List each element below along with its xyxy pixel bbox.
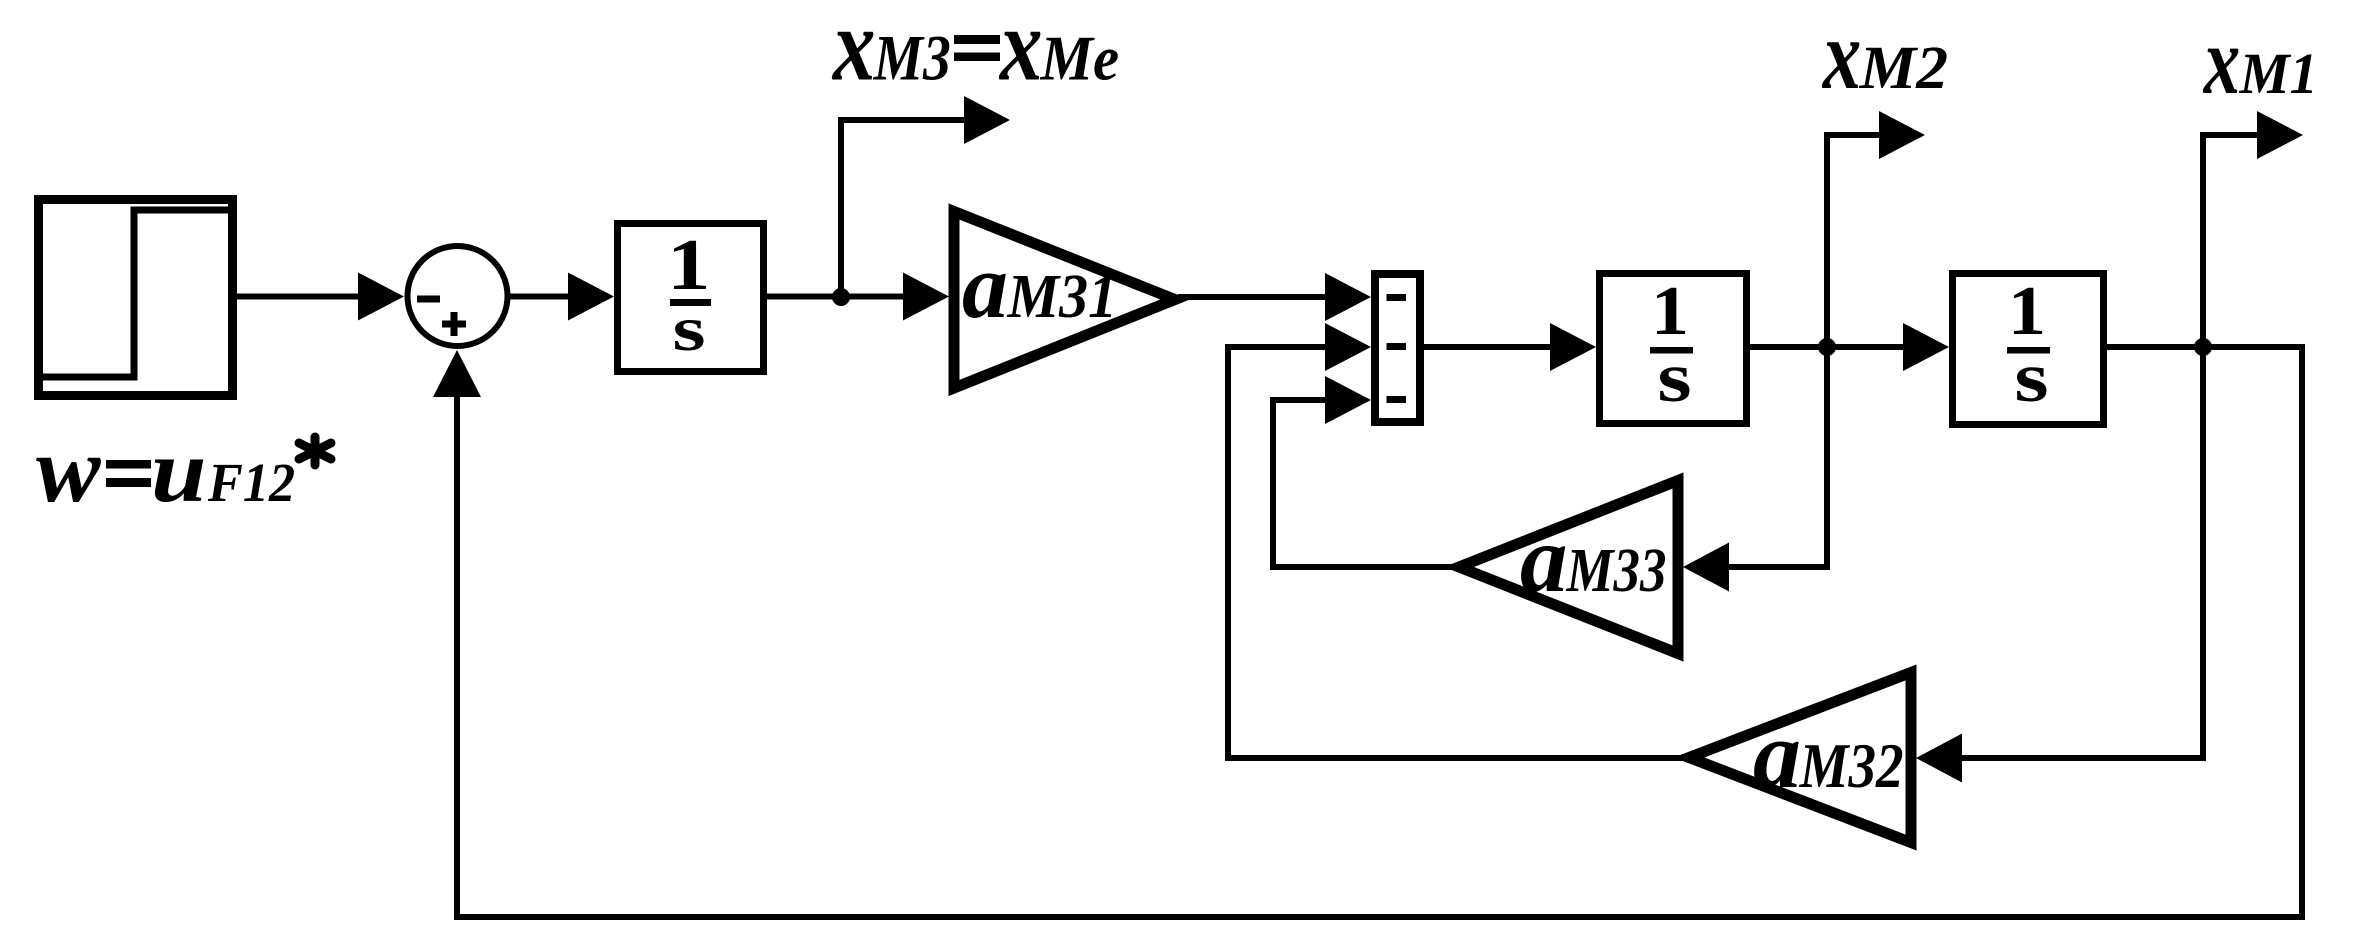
svg-text:a: a: [962, 235, 1008, 337]
svg-text:a: a: [1520, 506, 1568, 612]
svg-text:M3: M3: [873, 23, 951, 95]
svg-text:M32: M32: [1799, 730, 1904, 801]
svg-text:x: x: [831, 0, 875, 102]
svg-text:1: 1: [1651, 272, 1689, 349]
svg-text:Me: Me: [1040, 23, 1119, 94]
svg-text:M33: M33: [1566, 535, 1667, 605]
svg-text:M31: M31: [1007, 262, 1117, 332]
svg-text:M2: M2: [1859, 34, 1949, 101]
svg-text:x: x: [998, 0, 1042, 102]
svg-text:x: x: [1821, 0, 1861, 110]
svg-text:F12: F12: [207, 452, 295, 514]
svg-text:M1: M1: [2239, 42, 2318, 106]
svg-text:1: 1: [2008, 272, 2046, 349]
svg-text:u: u: [151, 421, 207, 521]
svg-text:x: x: [2202, 9, 2240, 115]
svg-text:w: w: [36, 417, 101, 521]
svg-text:a: a: [1753, 701, 1801, 808]
